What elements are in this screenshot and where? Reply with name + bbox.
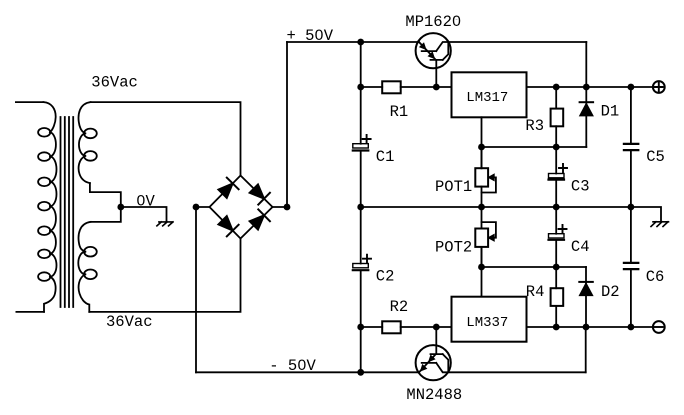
svg-text:MN2488: MN2488: [406, 386, 462, 404]
svg-text:D2: D2: [601, 283, 620, 301]
svg-text:36Vac: 36Vac: [106, 313, 153, 331]
svg-text:C5: C5: [646, 148, 665, 166]
svg-text:R1: R1: [390, 103, 409, 121]
svg-text:+ 50V: + 50V: [287, 27, 334, 45]
svg-text:LM337: LM337: [466, 315, 508, 331]
svg-text:C4: C4: [571, 238, 590, 256]
svg-text:- 50V: - 50V: [269, 357, 316, 375]
svg-text:C6: C6: [646, 268, 665, 286]
svg-text:POT1: POT1: [435, 178, 472, 196]
svg-text:D1: D1: [601, 102, 620, 120]
svg-text:C1: C1: [376, 148, 395, 166]
svg-text:36Vac: 36Vac: [91, 73, 138, 91]
svg-text:LM317: LM317: [466, 90, 508, 106]
svg-text:0V: 0V: [136, 193, 155, 211]
svg-text:POT2: POT2: [435, 239, 472, 257]
svg-text:R4: R4: [526, 283, 545, 301]
svg-text:R2: R2: [390, 298, 409, 316]
svg-text:C2: C2: [376, 268, 395, 286]
svg-text:MP1620: MP1620: [405, 13, 461, 31]
svg-text:C3: C3: [571, 178, 590, 196]
svg-text:R3: R3: [525, 117, 544, 135]
